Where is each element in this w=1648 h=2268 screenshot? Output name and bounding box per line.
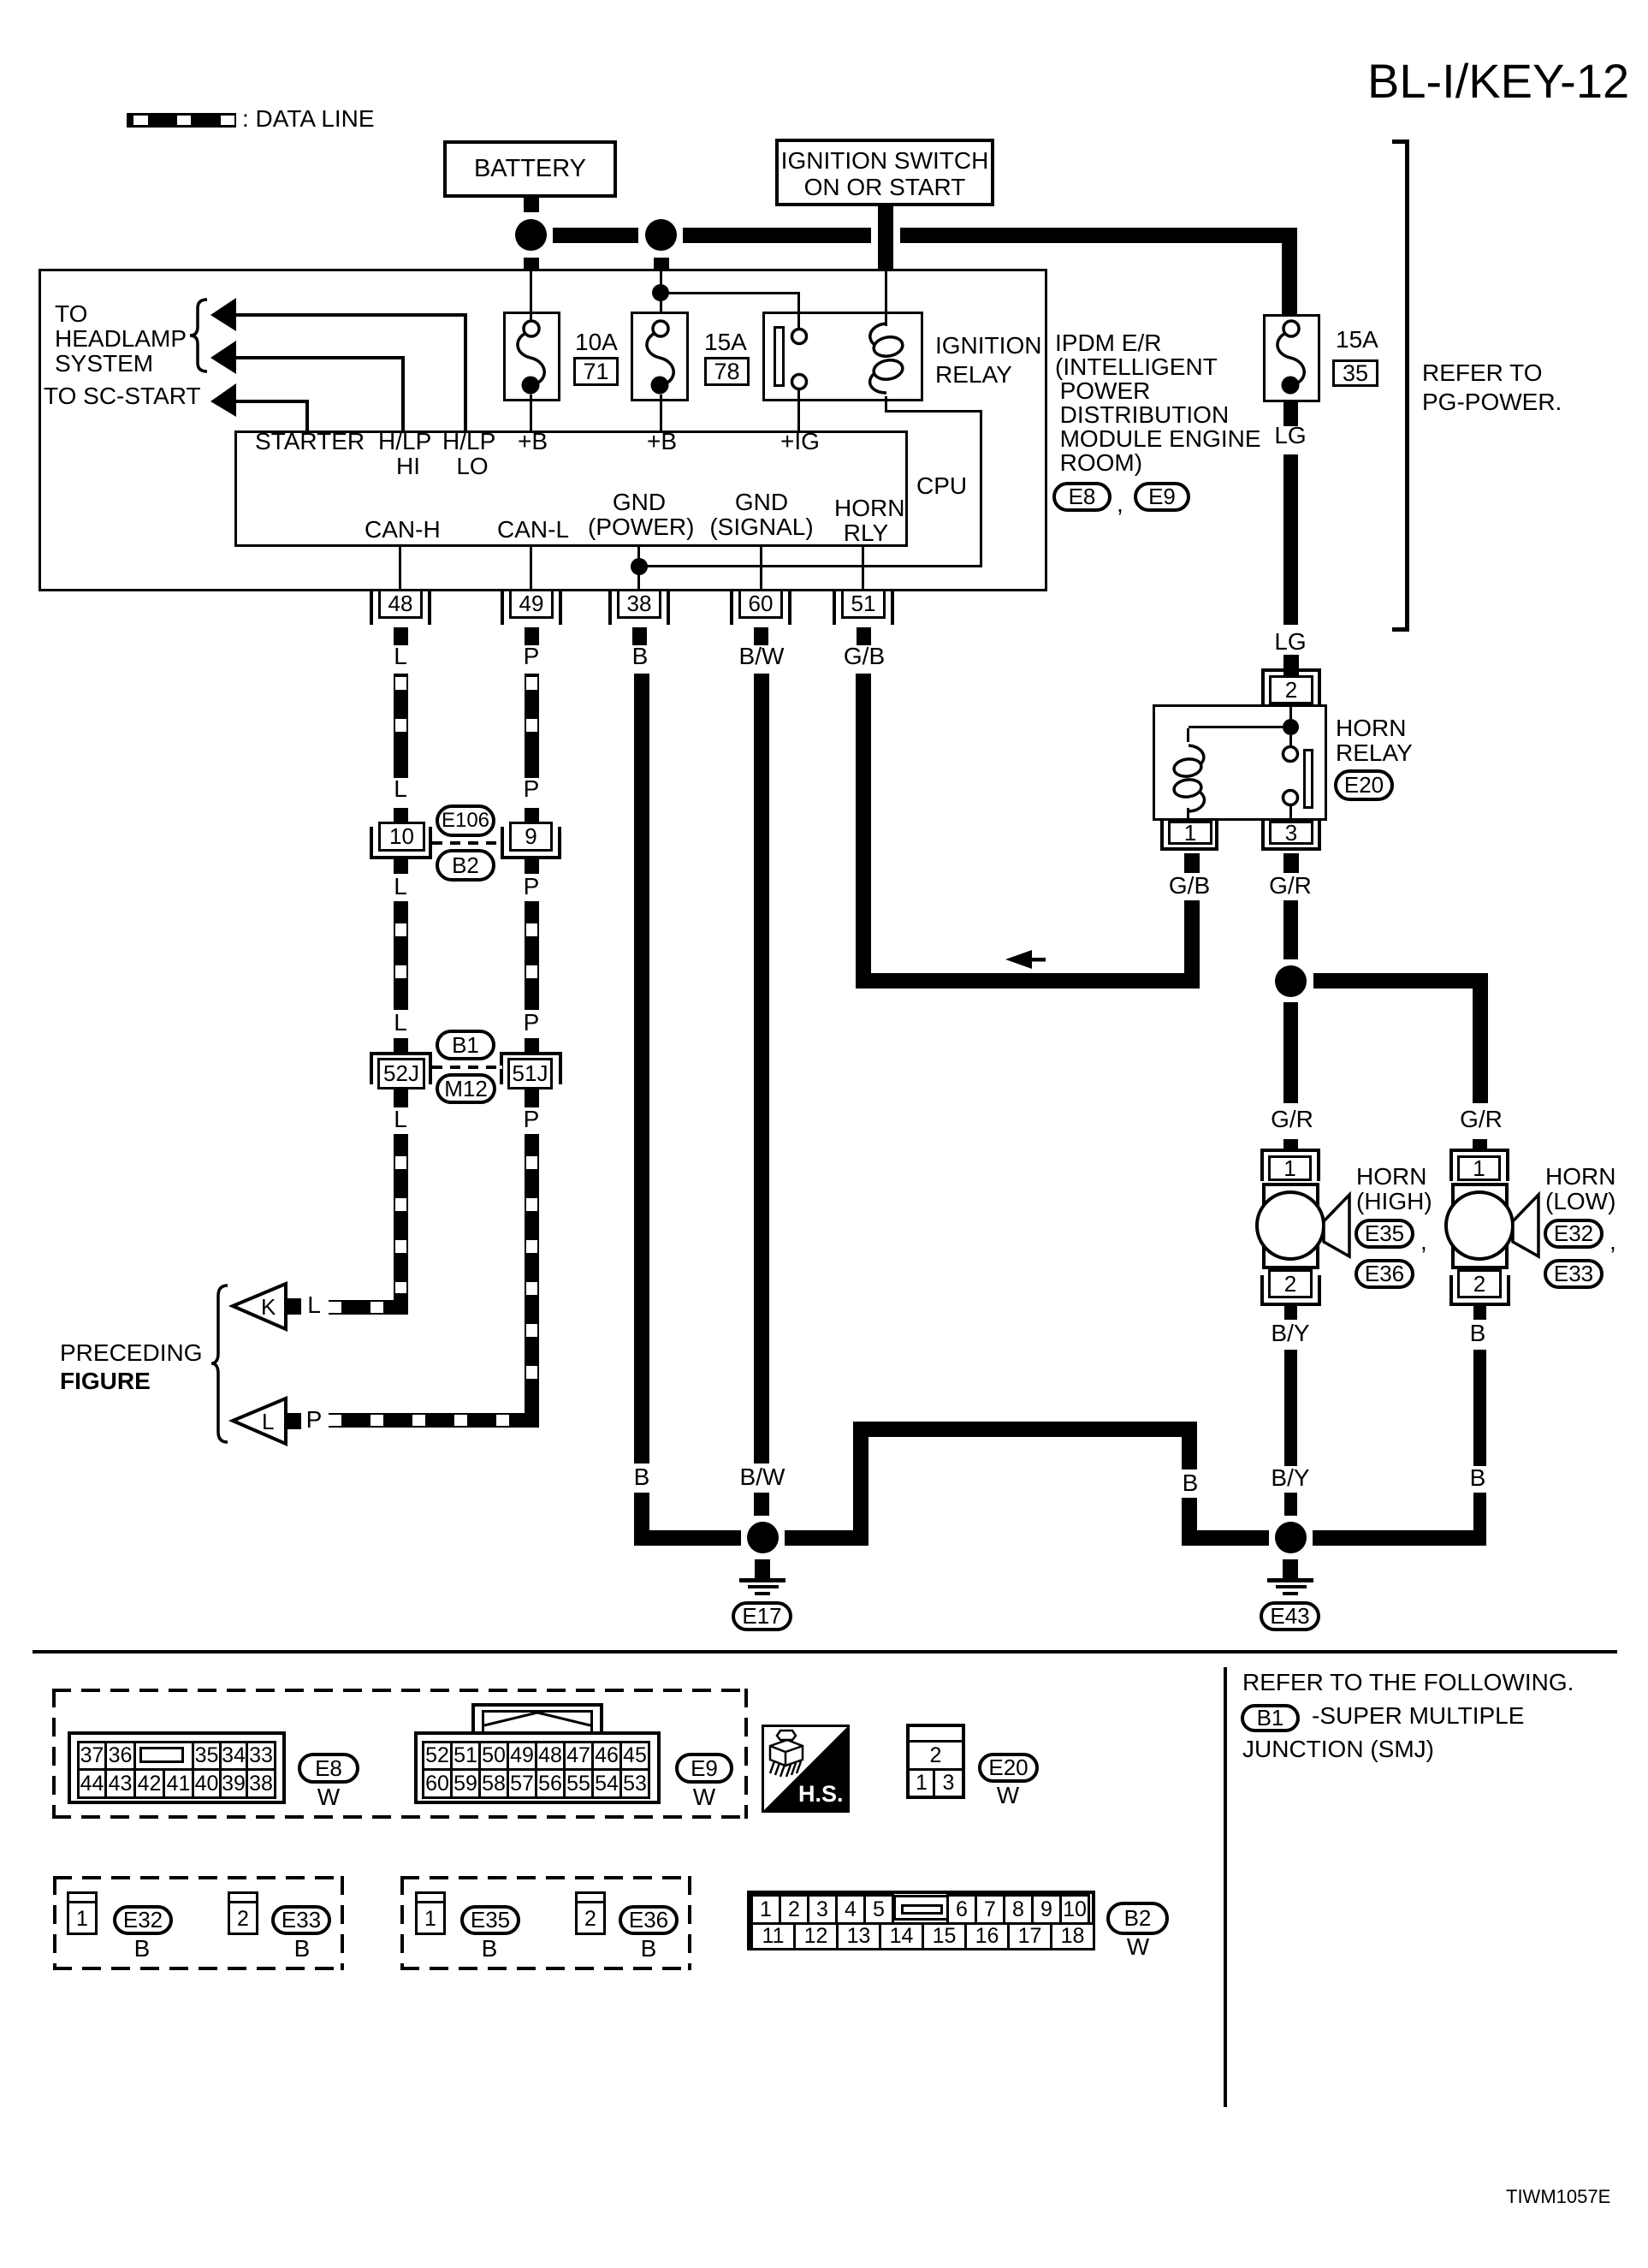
brace headlamp system	[190, 300, 207, 371]
connector E33 oval (face view)	[271, 1905, 331, 1935]
brace preceding figure	[211, 1285, 228, 1442]
label +B pin (fuse 78)	[647, 429, 677, 454]
divider vertical bottom	[1224, 1667, 1227, 2107]
label REFER TO THE FOLLOWING	[1242, 1670, 1574, 1695]
E9 keyway diagonals	[484, 1713, 590, 1725]
connector E9 pin row 2	[422, 1768, 650, 1799]
wire headlamp line LO vertical	[464, 313, 467, 430]
wire B/W from 60 vertical	[754, 674, 769, 1464]
fuse 35 symbol	[1277, 321, 1304, 395]
H.S. view symbol	[762, 1725, 850, 1813]
wire CAN-L stub above 51J	[525, 1038, 539, 1053]
legend text : DATA LINE	[242, 106, 375, 131]
wire fuse78 feed lower	[660, 301, 662, 312]
wire LG stub above E20 pin 2	[1283, 655, 1299, 677]
connector E20 face view	[0, 0, 1, 1]
wire HORN RLY pin	[862, 547, 864, 589]
label CAN-H	[365, 517, 441, 542]
label wire L	[394, 1011, 407, 1035]
label wire G/B at horn relay pin 1	[1169, 874, 1210, 898]
connector B2 pin row 2	[750, 1922, 1095, 1950]
bracket REFER TO PG-POWER	[0, 0, 1, 1]
connector E33 pin view	[0, 0, 1, 1]
wire K arrow stub	[286, 1298, 301, 1315]
label wire L	[394, 777, 407, 801]
connector E9 oval (face view)	[675, 1753, 733, 1784]
wire battery to IPDM stub	[524, 258, 539, 270]
label GND (POWER)	[588, 490, 691, 539]
connector pin 51	[0, 0, 1, 1]
label wire B/Y lower	[1271, 1466, 1309, 1490]
connector E8 oval (face view)	[298, 1753, 359, 1784]
fuse number box 78	[704, 357, 750, 386]
label STARTER	[255, 429, 365, 454]
connector E32 oval	[1544, 1219, 1604, 1249]
label W for E9	[693, 1785, 715, 1809]
label wire L at K arrow	[307, 1293, 321, 1317]
connector E36 oval	[1355, 1259, 1414, 1289]
horn high trumpet	[1324, 1195, 1349, 1256]
wire B/W lower vertical	[754, 1493, 769, 1516]
wire CAN-H data line segment 2	[394, 901, 408, 1010]
connector horn high pin 2	[0, 0, 1, 1]
label K in triangle	[261, 1296, 276, 1318]
ignition relay box	[762, 312, 923, 401]
wire power bus segment 2	[683, 228, 871, 243]
connector E9 pin row 1	[422, 1741, 650, 1771]
label wire G/R below pin 3	[1269, 874, 1312, 898]
connector E17 oval	[732, 1601, 792, 1631]
horn relay contact circles	[1283, 747, 1298, 805]
wire B elbow to E17	[634, 1530, 741, 1546]
wire horn low pin1 stub	[1473, 1139, 1487, 1150]
wire ground-power horizontal	[639, 565, 982, 567]
connector E106 oval	[436, 804, 495, 837]
horn low circle	[1444, 1190, 1515, 1261]
wire relay contact drop	[1289, 735, 1292, 747]
label CAN-L	[497, 517, 569, 542]
connector horn low pin 2	[0, 0, 1, 1]
IPDM E/R outer box	[39, 269, 1047, 591]
wire CAN-L stub above 9	[525, 808, 539, 822]
connector M12 oval	[436, 1073, 496, 1104]
label JUNCTION (SMJ)	[1242, 1737, 1434, 1761]
wire relay coil feed	[1187, 728, 1189, 742]
connector E20 pin 2	[0, 0, 1, 1]
node horn relay internal dot	[1283, 719, 1299, 735]
wire interconnect down leg lower	[1182, 1498, 1197, 1546]
connector E36 oval (face view)	[619, 1905, 679, 1935]
connector E35 oval	[1355, 1219, 1414, 1249]
dashed group box E35/E36	[0, 0, 1, 1]
label W for B2	[1127, 1935, 1149, 1959]
label wire LG lower	[1274, 630, 1306, 654]
label PRECEDING FIGURE	[60, 1339, 202, 1395]
fuse 78 box	[631, 312, 689, 401]
wire coil return vertical	[980, 410, 982, 567]
wire LG vertical	[1283, 454, 1298, 625]
node E43 ground dot	[1275, 1522, 1307, 1553]
label wire B lower	[1470, 1466, 1486, 1490]
label +IG pin	[780, 429, 820, 454]
connector E35 pin view	[0, 0, 1, 1]
node bus junction dot 2	[645, 219, 677, 251]
label wire LG	[1274, 424, 1306, 448]
wire E17 right horizontal	[785, 1530, 868, 1546]
label wire P at L arrow	[306, 1408, 323, 1432]
connector E9 oval (schematic)	[1134, 482, 1190, 512]
wire coil bottom drop	[885, 396, 887, 412]
label HORN RELAY	[1336, 715, 1413, 765]
CPU inner box	[234, 430, 908, 547]
wire CAN-H pin	[399, 547, 401, 589]
wire CAN-L stub below 9	[525, 859, 539, 874]
horn low body	[1451, 1183, 1509, 1269]
label 15A (fuse 35)	[1336, 327, 1378, 352]
label wire G/R left	[1271, 1107, 1313, 1131]
wire CAN-L data line segment 2	[525, 901, 539, 1010]
label GND (SIGNAL)	[708, 490, 815, 539]
wire CAN-L data line horizontal to L	[329, 1413, 525, 1428]
wire ignition dot to relay contact	[661, 292, 800, 294]
label B for E36	[641, 1937, 657, 1961]
label B for E33	[294, 1937, 311, 1961]
wire coil bottom horizontal	[885, 410, 982, 413]
horn high body	[1262, 1183, 1319, 1269]
wire CAN-L corner	[525, 1413, 539, 1428]
connector horn high pin 1	[0, 0, 1, 1]
wire fuse71 to +B	[530, 395, 532, 430]
node ground-power dot	[631, 558, 648, 575]
wire CAN-L data line segment 3	[525, 1134, 539, 1413]
junction dashed link E106/B2	[432, 841, 502, 845]
label wire B	[634, 1465, 650, 1489]
wire headlamp line LO horizontal	[236, 313, 467, 317]
wire B elbow into E43	[1313, 1530, 1486, 1546]
wire CAN-H stub above 52J	[394, 1038, 408, 1053]
wire G/B up leg to horn relay	[1184, 900, 1200, 989]
wire CAN-H stub below 52J	[394, 1089, 408, 1107]
wire fuse78 to +B	[660, 395, 662, 430]
wire interconnect to E43	[1182, 1530, 1269, 1546]
wire sc-start horizontal	[236, 400, 309, 403]
label wire L at 48	[394, 644, 407, 668]
arrow to headlamp (upper)	[210, 298, 236, 331]
connector E43 oval	[1260, 1601, 1320, 1631]
label wire B/Y upper	[1271, 1321, 1309, 1345]
connector 9 (E106/B2)	[0, 0, 1, 1]
wire relay contact to pin3	[1289, 804, 1292, 821]
wire relay contact top drop	[797, 292, 800, 330]
connector E8 face view	[0, 0, 1, 1]
connector B2 pin row 1 right	[946, 1894, 1090, 1925]
wire G/R left down leg	[1283, 1002, 1298, 1103]
wire CAN-H stub below 10	[394, 859, 408, 874]
horn high circle	[1255, 1190, 1325, 1261]
wire B lower vertical	[634, 1493, 649, 1546]
connector horn low pin 1	[0, 0, 1, 1]
wire G/R vertical upper	[1283, 900, 1298, 959]
wire LG stub below fuse 35	[1283, 402, 1298, 426]
label B for E32	[134, 1937, 151, 1961]
label HORN RLY	[834, 496, 898, 545]
wire B vertical (horn low)	[1473, 1350, 1486, 1466]
wire power bus segment 1	[553, 228, 638, 243]
label IGNITION RELAY	[935, 331, 1041, 389]
node ignition feed dot	[652, 284, 669, 301]
dashed group box E32/E33	[0, 0, 1, 1]
label L in triangle	[262, 1410, 274, 1433]
wire relay coil to pin1	[1187, 808, 1189, 821]
horn relay coil	[1173, 745, 1205, 811]
fuse number box 71	[573, 357, 619, 386]
ignition relay coil	[870, 324, 904, 393]
label HORN (HIGH)	[1356, 1164, 1432, 1214]
connector E20 pin 1	[0, 0, 1, 1]
fuse 71 symbol	[518, 321, 544, 395]
wire B/Y to E43 dot	[1284, 1493, 1297, 1516]
wire CAN-H data line segment 3	[394, 1134, 408, 1300]
label 15A	[704, 330, 747, 354]
wire G/R right down leg	[1473, 973, 1488, 1103]
wire fuse78 feed upper	[660, 270, 662, 286]
connector 52J (B1/M12)	[0, 0, 1, 1]
label REFER TO PG-POWER	[1422, 359, 1562, 417]
label TO HEADLAMP SYSTEM	[55, 301, 187, 376]
connector pin 48	[0, 0, 1, 1]
connector B2 pin row 1 left	[750, 1894, 894, 1925]
connector E33 oval	[1544, 1259, 1604, 1289]
wire E20 pin3 stub	[1283, 853, 1299, 873]
label SUPER MULTIPLE JUNCTION	[1312, 1703, 1524, 1728]
wire horn relay pin1 stub	[1184, 853, 1200, 873]
label H/LP HI	[378, 429, 431, 478]
label CPU	[916, 473, 967, 498]
separator line	[33, 1650, 1617, 1654]
connector E32 pin view	[0, 0, 1, 1]
connector B2 oval	[436, 849, 495, 882]
label comma	[1117, 491, 1123, 516]
arrow to sc-start	[210, 383, 236, 417]
label wire B interconnect	[1183, 1471, 1199, 1495]
label +B pin (fuse 71)	[518, 429, 548, 454]
label wire P at 49	[524, 644, 540, 668]
label H/LP LO	[442, 429, 495, 478]
wire L arrow stub	[286, 1413, 301, 1429]
label wire G/R right	[1460, 1107, 1503, 1131]
connector E20 oval (face view)	[978, 1753, 1039, 1783]
dashed group box E8/E9	[0, 0, 1, 1]
horn relay contact bar	[1303, 749, 1313, 809]
label wire L	[394, 1107, 407, 1131]
connector B2 face view	[0, 0, 1, 1]
label W for E8	[317, 1785, 340, 1809]
triangle L (preceding figure)	[233, 1398, 286, 1444]
connector pin 49	[0, 0, 1, 1]
label wire B upper	[1470, 1321, 1486, 1345]
connector pin 38	[0, 0, 1, 1]
label W for E20	[997, 1784, 1019, 1808]
horn low trumpet	[1513, 1195, 1538, 1256]
junction dashed link B1/M12	[432, 1066, 502, 1069]
connector B2 oval (face view)	[1106, 1902, 1169, 1935]
wire CAN-H data line segment 1	[394, 674, 408, 778]
legend data-line swatch	[127, 113, 236, 128]
wire sc-start vertical	[305, 400, 309, 430]
node E17 ground dot	[747, 1522, 779, 1553]
label wire P	[524, 1107, 540, 1131]
ignition relay contact bar	[774, 326, 785, 387]
wire headlamp line HI horizontal	[236, 356, 405, 359]
connector E8 oval (schematic)	[1052, 482, 1112, 512]
wire relay pin2 internal drop	[1289, 704, 1292, 719]
label comma after E35	[1420, 1229, 1427, 1254]
label 10A	[575, 330, 618, 354]
connector E20 oval	[1334, 769, 1394, 801]
wire relay contact to +IG	[797, 389, 800, 430]
wire CAN-H data line horizontal to K	[329, 1300, 394, 1315]
wire headlamp line HI vertical	[401, 356, 405, 430]
wire B down to elbow	[1473, 1493, 1486, 1546]
fuse 71 box	[503, 312, 560, 401]
wire interconnect down leg upper	[1182, 1422, 1197, 1469]
H.S. plug icon	[770, 1731, 803, 1777]
connector E20 pin 3	[0, 0, 1, 1]
connector B1 oval	[436, 1030, 495, 1060]
fuse 78 symbol	[647, 321, 673, 395]
connector E36 pin view	[0, 0, 1, 1]
wire bus right corner drop	[1282, 228, 1297, 314]
node battery junction dot	[515, 219, 547, 251]
wire fuse71 feed	[530, 271, 532, 323]
connector 10 (E106/B2)	[0, 0, 1, 1]
wire ignition switch stub	[878, 206, 893, 270]
horn relay box E20	[1153, 704, 1327, 821]
connector B1 oval (note)	[1241, 1704, 1300, 1732]
wire E17 riser	[853, 1422, 868, 1546]
wire battery stub	[524, 198, 539, 212]
label TIWM1057E	[1506, 2188, 1610, 2206]
connector pin 60	[0, 0, 1, 1]
connector E35 oval (face view)	[460, 1905, 520, 1935]
label wire L	[394, 875, 407, 899]
wire G/R right horizontal	[1313, 973, 1488, 989]
fuse 35 box	[1263, 314, 1320, 402]
triangle K (preceding figure)	[233, 1284, 286, 1329]
wire CAN-H stub above 10	[394, 808, 408, 822]
wire B from 38 vertical	[634, 674, 649, 1464]
ignition switch box	[775, 139, 994, 206]
wire GND POWER pin	[637, 547, 640, 589]
wire CAN-L pin	[530, 547, 532, 589]
wire CAN-L data line segment 1	[525, 674, 539, 778]
connector B2 key	[0, 0, 1, 1]
battery	[443, 140, 617, 198]
label wire P	[524, 777, 540, 801]
label B for E35	[482, 1937, 498, 1961]
wire CAN-H corner	[394, 1300, 408, 1315]
label wire P	[524, 1011, 540, 1035]
title BL-I/KEY-12	[1367, 57, 1629, 105]
label wire B at 38	[632, 644, 649, 668]
connector 51J (B1/M12)	[0, 0, 1, 1]
ground symbol E43	[0, 0, 1, 1]
wire horn low pin2 stub	[1473, 1306, 1486, 1320]
wire CAN-L stub below 51J	[525, 1089, 539, 1107]
label TO SC-START	[44, 383, 201, 408]
wire B/Y vertical	[1284, 1350, 1297, 1466]
label HORN (LOW)	[1545, 1164, 1615, 1214]
ground symbol E17	[0, 0, 1, 1]
wire horn high pin1 stub	[1283, 1139, 1298, 1150]
connector E9 face view	[0, 0, 1, 1]
fuse number box 35	[1332, 359, 1378, 387]
wire ignition relay coil feed	[885, 271, 887, 326]
arrow to headlamp (lower)	[210, 341, 236, 374]
wire relay internal horizontal	[1189, 726, 1283, 728]
arrow direction on G/B wire	[1005, 950, 1046, 969]
label wire B/W at 60	[739, 644, 785, 668]
label IPDM E/R description	[1055, 331, 1261, 475]
wire GND SIGNAL pin	[760, 547, 762, 589]
ignition relay contact circles	[792, 330, 807, 389]
label comma after E32	[1609, 1229, 1616, 1254]
wire horn high pin2 stub	[1284, 1306, 1297, 1320]
wire G/B horizontal	[856, 973, 1200, 989]
wire power bus segment 3	[900, 228, 1297, 243]
label wire B/W	[740, 1465, 785, 1489]
label wire G/B at 51	[844, 644, 885, 668]
label wire P	[524, 875, 540, 899]
node G/R junction dot	[1275, 965, 1307, 997]
wire G/B from 51 vertical	[856, 674, 871, 989]
wire bus dot2 to IPDM stub	[654, 258, 669, 270]
connector E32 oval (face view)	[113, 1905, 173, 1935]
wire top interconnect horizontal	[853, 1422, 1197, 1437]
